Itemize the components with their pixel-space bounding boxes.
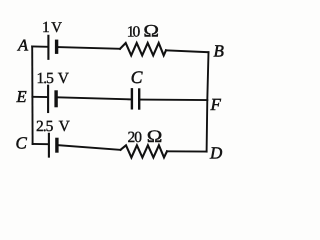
svg-text:C: C xyxy=(16,134,28,153)
svg-text:C: C xyxy=(131,67,143,87)
svg-text:1: 1 xyxy=(42,19,50,36)
svg-text:V: V xyxy=(58,70,70,87)
svg-text:1.5: 1.5 xyxy=(37,70,55,87)
svg-text:F: F xyxy=(210,95,222,114)
svg-text:Ω: Ω xyxy=(143,21,159,41)
svg-text:V: V xyxy=(51,20,62,36)
svg-text:D: D xyxy=(209,144,223,163)
svg-text:E: E xyxy=(16,87,27,106)
svg-text:V: V xyxy=(59,118,71,135)
svg-text:20: 20 xyxy=(128,129,143,146)
svg-text:A: A xyxy=(17,36,29,55)
svg-text:Ω: Ω xyxy=(147,126,163,146)
svg-text:2.5: 2.5 xyxy=(36,118,54,135)
svg-text:B: B xyxy=(214,42,225,61)
